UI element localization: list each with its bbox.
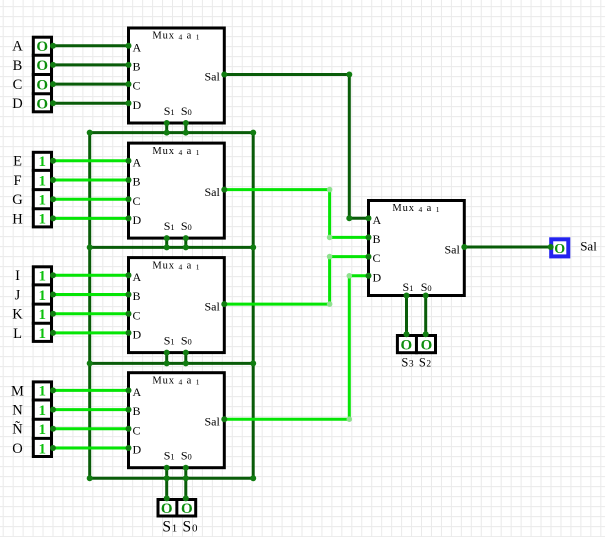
svg-text:O: O [36, 97, 48, 113]
svg-text:1: 1 [38, 384, 46, 400]
svg-text:D: D [133, 328, 142, 342]
svg-text:O: O [554, 242, 565, 257]
svg-text:C: C [133, 423, 141, 437]
svg-text:Sal: Sal [204, 299, 220, 313]
svg-text:S1: S1 [164, 219, 175, 233]
svg-text:S1: S1 [164, 334, 175, 348]
svg-text:S1: S1 [403, 280, 414, 294]
svg-text:S0: S0 [181, 219, 192, 233]
svg-text:1: 1 [38, 326, 46, 342]
svg-text:A: A [133, 270, 142, 284]
svg-text:D: D [373, 270, 382, 284]
svg-text:S0: S0 [181, 104, 192, 118]
svg-text:C: C [373, 251, 381, 265]
svg-text:F: F [13, 173, 21, 189]
svg-text:S0: S0 [421, 280, 432, 294]
svg-text:G: G [12, 192, 23, 208]
svg-text:Mux 4 a 1: Mux 4 a 1 [152, 260, 200, 271]
svg-text:B: B [133, 404, 141, 418]
svg-text:O: O [12, 441, 22, 457]
svg-text:O: O [36, 58, 48, 74]
svg-text:A: A [12, 39, 23, 55]
svg-text:S1: S1 [164, 449, 175, 463]
svg-text:1: 1 [38, 269, 46, 285]
svg-text:S0: S0 [181, 334, 192, 348]
svg-text:D: D [12, 96, 22, 112]
svg-text:B: B [133, 289, 141, 303]
svg-text:A: A [373, 213, 382, 227]
svg-text:O: O [36, 39, 48, 55]
svg-text:D: D [133, 213, 142, 227]
svg-text:Mux 4 a 1: Mux 4 a 1 [152, 31, 200, 42]
svg-text:S0: S0 [181, 449, 192, 463]
svg-text:Mux 4 a 1: Mux 4 a 1 [152, 146, 200, 157]
svg-text:D: D [133, 443, 142, 457]
svg-text:C: C [133, 79, 141, 93]
svg-text:1: 1 [38, 403, 46, 419]
svg-text:Ñ: Ñ [12, 422, 23, 438]
svg-text:C: C [133, 308, 141, 322]
svg-text:1: 1 [38, 173, 46, 189]
svg-text:A: A [133, 155, 142, 169]
svg-text:B: B [13, 58, 23, 74]
svg-text:1: 1 [38, 193, 46, 209]
svg-text:Mux 4 a 1: Mux 4 a 1 [152, 375, 200, 386]
svg-text:E: E [13, 154, 22, 170]
svg-text:K: K [12, 307, 23, 323]
svg-text:Sal: Sal [204, 185, 220, 199]
svg-text:1: 1 [38, 422, 46, 438]
svg-text:A: A [133, 40, 142, 54]
svg-text:1: 1 [38, 441, 46, 457]
svg-text:M: M [11, 383, 24, 399]
svg-text:1: 1 [38, 307, 46, 323]
svg-text:S1: S1 [164, 104, 175, 118]
svg-text:C: C [133, 194, 141, 208]
svg-text:C: C [13, 77, 23, 93]
svg-text:O: O [161, 501, 173, 517]
svg-text:B: B [133, 175, 141, 189]
svg-text:1: 1 [38, 212, 46, 228]
svg-text:B: B [373, 232, 381, 246]
svg-text:D: D [133, 98, 142, 112]
svg-text:O: O [421, 337, 433, 353]
svg-text:J: J [15, 287, 21, 303]
svg-text:Mux 4 a 1: Mux 4 a 1 [392, 203, 440, 214]
svg-text:Sal: Sal [204, 414, 220, 428]
svg-text:A: A [133, 385, 142, 399]
svg-text:O: O [181, 501, 193, 517]
svg-text:O: O [400, 337, 412, 353]
svg-text:L: L [13, 326, 22, 342]
svg-text:O: O [36, 77, 48, 93]
svg-text:I: I [15, 268, 20, 284]
svg-text:Sal: Sal [444, 242, 460, 256]
svg-text:Sal: Sal [580, 238, 597, 253]
svg-text:H: H [12, 211, 23, 227]
svg-text:1: 1 [38, 154, 46, 170]
svg-text:Sal: Sal [204, 70, 220, 84]
svg-text:1: 1 [38, 288, 46, 304]
svg-text:N: N [12, 403, 23, 419]
svg-text:B: B [133, 60, 141, 74]
